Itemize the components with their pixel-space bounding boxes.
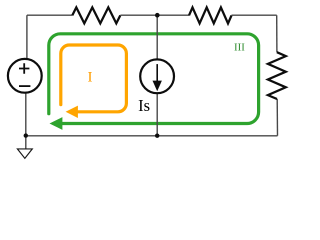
- wire left lower vertical: [25, 93, 27, 136]
- current source Is circle: [140, 59, 174, 93]
- voltage source V1 circle: [8, 59, 42, 93]
- resistor R3 (right vertical): [268, 52, 286, 99]
- mesh loop I arrowhead: [66, 106, 78, 118]
- voltage source plus sign: [19, 63, 29, 73]
- wire right upper vertical: [276, 15, 278, 52]
- wire middle vertical lower (current source to bottom): [156, 93, 158, 136]
- junction node top (wire to current source): [155, 13, 160, 18]
- resistor R1 (top left): [72, 7, 120, 23]
- junction node bottom middle (current source to bottom wire): [155, 134, 159, 138]
- wire bottom horizontal: [26, 135, 278, 137]
- svg-text:Is: Is: [138, 96, 150, 115]
- voltage source minus sign: [19, 85, 30, 87]
- wire top-right horizontal: [232, 14, 277, 16]
- svg-text:III: III: [234, 42, 245, 54]
- wire top-middle horizontal: [120, 14, 189, 16]
- mesh loop I (orange): [61, 45, 127, 112]
- current source arrow shaft: [156, 64, 158, 82]
- resistor R2 (top right): [189, 7, 232, 23]
- current source arrowhead: [153, 81, 162, 92]
- mesh loop III arrowhead: [50, 117, 63, 130]
- wire right lower vertical: [276, 99, 278, 136]
- junction node bottom left: [24, 133, 28, 137]
- wire top-left horizontal: [27, 14, 72, 16]
- wire left upper vertical: [26, 15, 28, 59]
- ground: [17, 149, 32, 158]
- svg-text:I: I: [88, 70, 93, 86]
- mesh loop III (green): [49, 34, 259, 124]
- wire ground stub: [25, 136, 27, 149]
- wire middle vertical upper (junction to current source): [156, 15, 158, 59]
